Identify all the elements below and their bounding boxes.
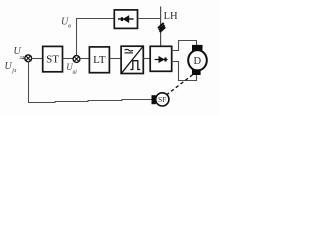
pulse unit diagonal: [122, 47, 143, 73]
wire ST to junction 2: [63, 58, 73, 60]
wire LT to pulse unit: [109, 58, 121, 60]
svg-text:U: U: [5, 61, 13, 72]
wire pulse unit to converter: [143, 58, 150, 60]
wire sensor box to LH line: [138, 18, 161, 20]
svg-text:LH: LH: [164, 11, 178, 22]
svg-text:SF: SF: [158, 95, 166, 104]
node Ugz label (left reference input): [14, 46, 25, 61]
wire junction1 to ST: [32, 58, 43, 60]
hatch marks on LH line: [158, 23, 165, 32]
mechanical coupling (dashed shaft): [166, 75, 192, 95]
svg-text:D: D: [194, 56, 202, 67]
wire junction2 to LT: [80, 58, 90, 60]
summing junction 2: [73, 56, 80, 63]
feedback wire SF to junction 1: [29, 61, 152, 102]
svg-text:LT: LT: [93, 54, 106, 66]
svg-text:jз: jз: [11, 68, 17, 74]
motor D armature circle: [188, 50, 207, 70]
armature wire top (converter to motor brush): [172, 41, 197, 51]
svg-text:в: в: [68, 23, 71, 29]
wire top horizontal from Uv corner to sensor box: [77, 19, 115, 56]
tachogenerator SF circle: [156, 93, 169, 106]
wire stub into summing junction 1: [22, 58, 25, 60]
pulse-phase control unit box: [121, 46, 143, 73]
tachogenerator SF brush: [152, 95, 156, 104]
motor D bottom brush: [192, 69, 201, 75]
armature wire bottom (converter to motor brush): [172, 62, 197, 81]
node Ujz label (feedback signal): [5, 61, 17, 74]
node Ugj label (below junction 2): [66, 62, 77, 75]
LH supply line (vertical): [160, 7, 162, 47]
summing junction 1: [25, 55, 32, 62]
block LT (current regulator): [89, 47, 109, 73]
thyristor symbol: [155, 56, 168, 63]
pulse unit AC symbol (tilde over line): [125, 49, 133, 51]
motor D top brush: [192, 45, 203, 51]
svg-text:ST: ST: [46, 54, 59, 66]
node Uv label (top input): [61, 17, 71, 30]
pulse unit pulse symbol: [130, 61, 140, 70]
thyristor converter box: [150, 46, 172, 71]
svg-text:gj: gj: [73, 69, 78, 75]
block ST (speed regulator): [43, 46, 63, 71]
svg-text:гз: гз: [20, 55, 25, 61]
sensor arrow symbol: [118, 16, 134, 23]
voltage sensor box (left-arrow box): [114, 10, 137, 29]
